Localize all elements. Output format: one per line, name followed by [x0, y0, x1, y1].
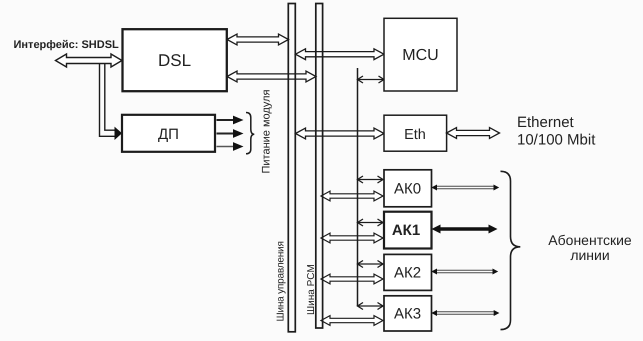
wire: SHDSL interface double arrow — [56, 54, 123, 67]
wire: control line to AK3 chevron arrow — [358, 303, 384, 310]
block AK1 — [384, 212, 432, 249]
wire: PCM bus to AK1 — [321, 233, 383, 243]
block DSL — [123, 29, 227, 91]
svg-text:АК0: АК0 — [394, 180, 421, 197]
svg-text:Шина управления: Шина управления — [276, 241, 287, 321]
wire: power arrow 2 — [217, 133, 235, 135]
wire: AK3 subscriber line arrow — [431, 310, 499, 316]
wire: control bus to MCU — [296, 49, 385, 60]
wire: MCU control line down to AK blocks — [357, 68, 359, 306]
wire: control line to AK0 chevron arrow — [358, 176, 384, 183]
wire: control bus to Eth — [296, 128, 385, 139]
svg-text:Абонентские: Абонентские — [548, 232, 632, 248]
svg-text:АК3: АК3 — [394, 305, 421, 322]
svg-text:АК2: АК2 — [394, 264, 421, 281]
bus: Шина PCM — [316, 4, 323, 329]
block AK2 — [384, 254, 432, 290]
svg-text:Питание модуля: Питание модуля — [261, 89, 273, 173]
svg-text:АК1: АК1 — [392, 222, 420, 239]
block Eth — [384, 115, 447, 151]
block AK0 — [384, 170, 432, 207]
wire: control line to AK1 chevron arrow — [358, 219, 384, 226]
bus: Шина управления — [288, 4, 295, 332]
wire: power arrow 1 — [217, 119, 235, 121]
brace: power group — [246, 113, 254, 154]
svg-text:ДП: ДП — [158, 126, 179, 143]
svg-text:Ethernet: Ethernet — [517, 114, 575, 131]
block MCU — [384, 18, 457, 91]
block AK3 — [384, 296, 432, 331]
wire: SHDSL tap down to DP — [100, 64, 115, 137]
svg-text:Интерфейс: SHDSL: Интерфейс: SHDSL — [14, 39, 120, 51]
wire: AK0 subscriber line arrow — [431, 185, 499, 191]
svg-text:10/100 Mbit: 10/100 Mbit — [517, 132, 596, 149]
svg-text:MCU: MCU — [402, 47, 438, 64]
wire: Eth to Ethernet line double arrow — [447, 128, 500, 139]
svg-text:Eth: Eth — [404, 127, 426, 143]
svg-text:Шина PCM: Шина PCM — [306, 264, 317, 315]
wire: control line to MCU chevron arrow — [358, 76, 385, 83]
svg-text:линии: линии — [570, 247, 609, 263]
wire: control line to AK2 chevron arrow — [358, 261, 384, 268]
svg-text:DSL: DSL — [158, 51, 191, 70]
wire: DSL to PCM bus — [227, 71, 316, 82]
wire: AK2 subscriber line arrow — [431, 269, 498, 275]
wire: power arrow 3 — [217, 146, 235, 148]
wire: AK1 subscriber line arrow (bold) — [432, 225, 498, 234]
wire: PCM bus to AK2 — [321, 274, 383, 284]
wire: DSL to control bus — [227, 34, 289, 45]
brace: subscriber lines group — [501, 171, 521, 329]
wire: PCM bus to AK3 — [321, 316, 383, 326]
block ДП — [122, 115, 215, 152]
wire: PCM bus to AK0 — [321, 191, 383, 201]
